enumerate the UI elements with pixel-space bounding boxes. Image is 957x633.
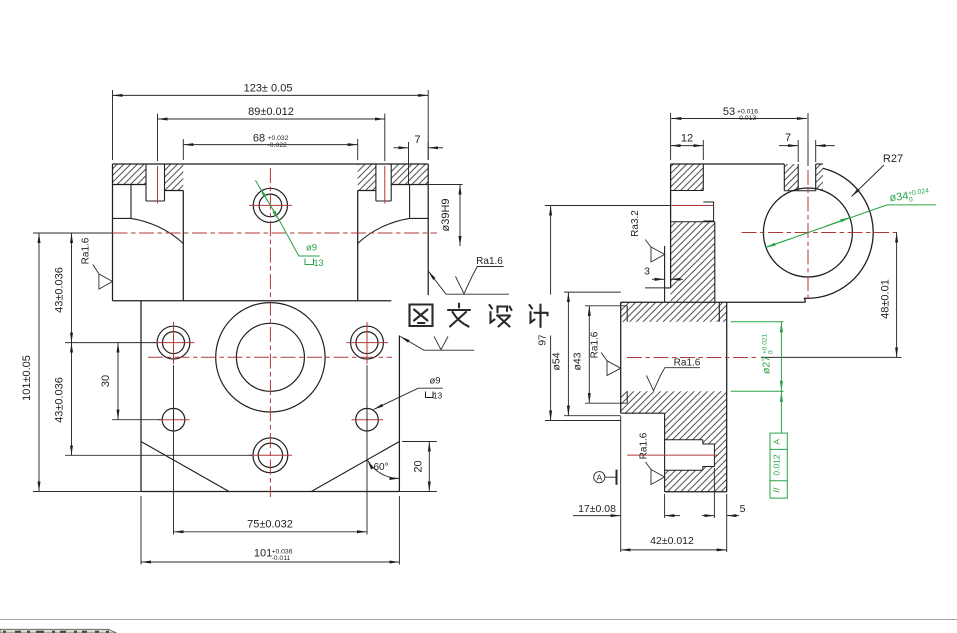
front view: central bore o43/o27 — [216, 303, 325, 412]
front view: plate outline — [141, 301, 399, 492]
svg-text:3: 3 — [644, 266, 650, 278]
svg-text:Ra3.2: Ra3.2 — [630, 210, 641, 237]
dim 17+-0.08 — [573, 494, 680, 518]
label R27 with leader — [852, 153, 904, 197]
svg-text://: // — [772, 487, 782, 493]
front view: lower-right bolt hole — [356, 408, 379, 431]
bottom toolbar fragment — [0, 629, 117, 633]
svg-text:101: 101 — [254, 548, 272, 560]
svg-text:12: 12 — [681, 132, 693, 144]
front view: upper bore centerline — [113, 232, 438, 234]
svg-text:42±0.012: 42±0.012 — [650, 535, 694, 547]
dim 43+-0.036 upper — [54, 233, 157, 343]
dim 20 — [399, 442, 436, 492]
svg-text:A: A — [772, 439, 782, 445]
dim 60 deg with arc — [367, 460, 399, 479]
svg-text:ø9: ø9 — [429, 375, 440, 386]
dim 89+-0.012 — [158, 106, 385, 161]
bore face step lines — [626, 306, 628, 403]
svg-text:-0.022: -0.022 — [268, 142, 287, 149]
svg-text:Ra1.6: Ra1.6 — [590, 331, 601, 358]
surface finish Ra1.6 bore bottom — [647, 357, 701, 390]
dim 48+-0.01 — [761, 233, 902, 358]
svg-text:Ra1.6: Ra1.6 — [476, 256, 503, 267]
svg-text:ø43: ø43 — [572, 352, 584, 370]
front view: hole crosshairs — [153, 205, 388, 455]
side view: outline — [621, 164, 805, 492]
callout o9 cbore 13 (green, top hole) — [255, 180, 323, 268]
svg-text:43±0.036: 43±0.036 — [54, 267, 66, 313]
dim 97 — [537, 206, 671, 421]
tolerance frame parallelism 0.012 A (green) — [770, 391, 787, 498]
front view: top hole (o9 c-bore o13) — [253, 188, 287, 222]
dim o54 — [551, 292, 621, 416]
dim 7 (front flange rim) — [394, 134, 444, 184]
side view: bore o34 circle — [763, 188, 852, 277]
svg-text:30: 30 — [100, 375, 112, 387]
svg-text:13: 13 — [313, 258, 323, 268]
svg-text:60°: 60° — [373, 462, 388, 473]
svg-text:ø39H9: ø39H9 — [440, 198, 452, 231]
svg-text:20: 20 — [413, 460, 425, 472]
svg-text:A: A — [596, 473, 602, 483]
svg-text:17±0.08: 17±0.08 — [578, 503, 616, 515]
svg-text:7: 7 — [414, 134, 420, 146]
svg-text:Ra1.6: Ra1.6 — [639, 432, 650, 459]
dim 12 — [671, 132, 704, 160]
front view: flange bolt slots — [146, 164, 391, 201]
front view: flange band hatching — [113, 164, 429, 191]
svg-text:75±0.032: 75±0.032 — [247, 519, 293, 531]
side view: flange hole centerline — [671, 205, 714, 207]
svg-text:43±0.036: 43±0.036 — [54, 377, 66, 423]
front view: central bore centerline — [148, 356, 392, 358]
svg-text:101±0.05: 101±0.05 — [21, 355, 33, 401]
watermark white box — [391, 295, 559, 335]
side view: lower hole slot — [665, 440, 715, 471]
front view: lower-left bolt hole — [162, 408, 185, 431]
svg-text:0: 0 — [768, 350, 775, 354]
dim o34 tol (green) — [765, 187, 936, 248]
svg-text:ø54: ø54 — [551, 352, 563, 370]
svg-text:68: 68 — [253, 132, 265, 144]
svg-text:53: 53 — [723, 106, 735, 118]
front view: body outline — [113, 164, 429, 301]
svg-text:123± 0.05: 123± 0.05 — [244, 83, 293, 95]
dim 101+-0.05 (left) — [21, 233, 141, 492]
watermark characters — [410, 304, 548, 328]
surface finish Ra1.6 bore face — [590, 331, 621, 375]
side view: boss vertical centerline — [807, 170, 809, 300]
side view: lower hole centerline — [627, 454, 718, 456]
dim 3 (step) — [644, 266, 683, 288]
side view: section hatching — [621, 164, 823, 492]
svg-text:ø9: ø9 — [306, 243, 317, 254]
dim 42+-0.012 — [621, 416, 727, 552]
svg-text:7: 7 — [785, 132, 791, 144]
svg-text:48±0.01: 48±0.01 — [880, 279, 892, 319]
dim 123+-0.05 — [113, 83, 429, 161]
front view: wall steps and casting curves — [113, 185, 429, 244]
side view: top notch (7mm slot) — [784, 164, 823, 191]
svg-text:89±0.012: 89±0.012 — [248, 106, 294, 118]
svg-text:-0.013: -0.013 — [737, 115, 756, 122]
svg-text:13: 13 — [433, 391, 443, 401]
dim 30 — [100, 343, 161, 420]
front view: chamfer edges 60 deg — [141, 442, 399, 492]
dim o27 tol (green) — [731, 322, 784, 392]
dim 5 — [702, 468, 746, 518]
dim 7 (top notch) — [779, 132, 835, 162]
bottom separator line — [0, 619, 957, 621]
side view: boss horizontal centerline — [742, 232, 897, 234]
surface finish Ra1.6 recess wall — [639, 432, 665, 484]
surface finish Ra3.2 flange face — [630, 210, 665, 262]
front view: bottom hole (o9 c-bore o13) — [253, 438, 288, 473]
side view: boss R27 outer arc — [805, 168, 874, 302]
callout o9 cbore 13 (black) — [374, 375, 443, 409]
svg-text:Ra1.6: Ra1.6 — [674, 357, 701, 368]
dim 75+-0.032 — [174, 365, 368, 535]
front view: flange slot centerlines — [158, 166, 385, 204]
front view: vertical centerline — [269, 168, 271, 497]
svg-text:R27: R27 — [883, 153, 903, 165]
dim 43+-0.036 lower — [54, 343, 253, 456]
front view: upper-right bolt hole — [351, 326, 384, 359]
front view: upper-left bolt hole — [157, 326, 190, 359]
dim 53 tol — [671, 106, 808, 166]
svg-text:-0.011: -0.011 — [272, 555, 291, 562]
surface symbol on plate edge — [400, 336, 474, 350]
datum A symbol — [594, 470, 617, 485]
surface finish Ra1.6 right wall leader — [428, 256, 509, 294]
side view: flange bolt hole c-bore — [703, 202, 713, 221]
surface finish Ra1.6 left wall — [81, 237, 113, 289]
svg-text:Ra1.6: Ra1.6 — [81, 237, 92, 264]
dim o43 — [572, 306, 628, 403]
svg-text:5: 5 — [740, 503, 746, 515]
side view: main bore centerline — [627, 357, 757, 359]
dim o39H9 — [428, 185, 462, 247]
dim 101 tol bottom — [141, 496, 399, 565]
dim 68 tol — [183, 132, 357, 160]
svg-text:ø27: ø27 — [761, 356, 773, 374]
svg-text:0.012: 0.012 — [772, 454, 782, 476]
